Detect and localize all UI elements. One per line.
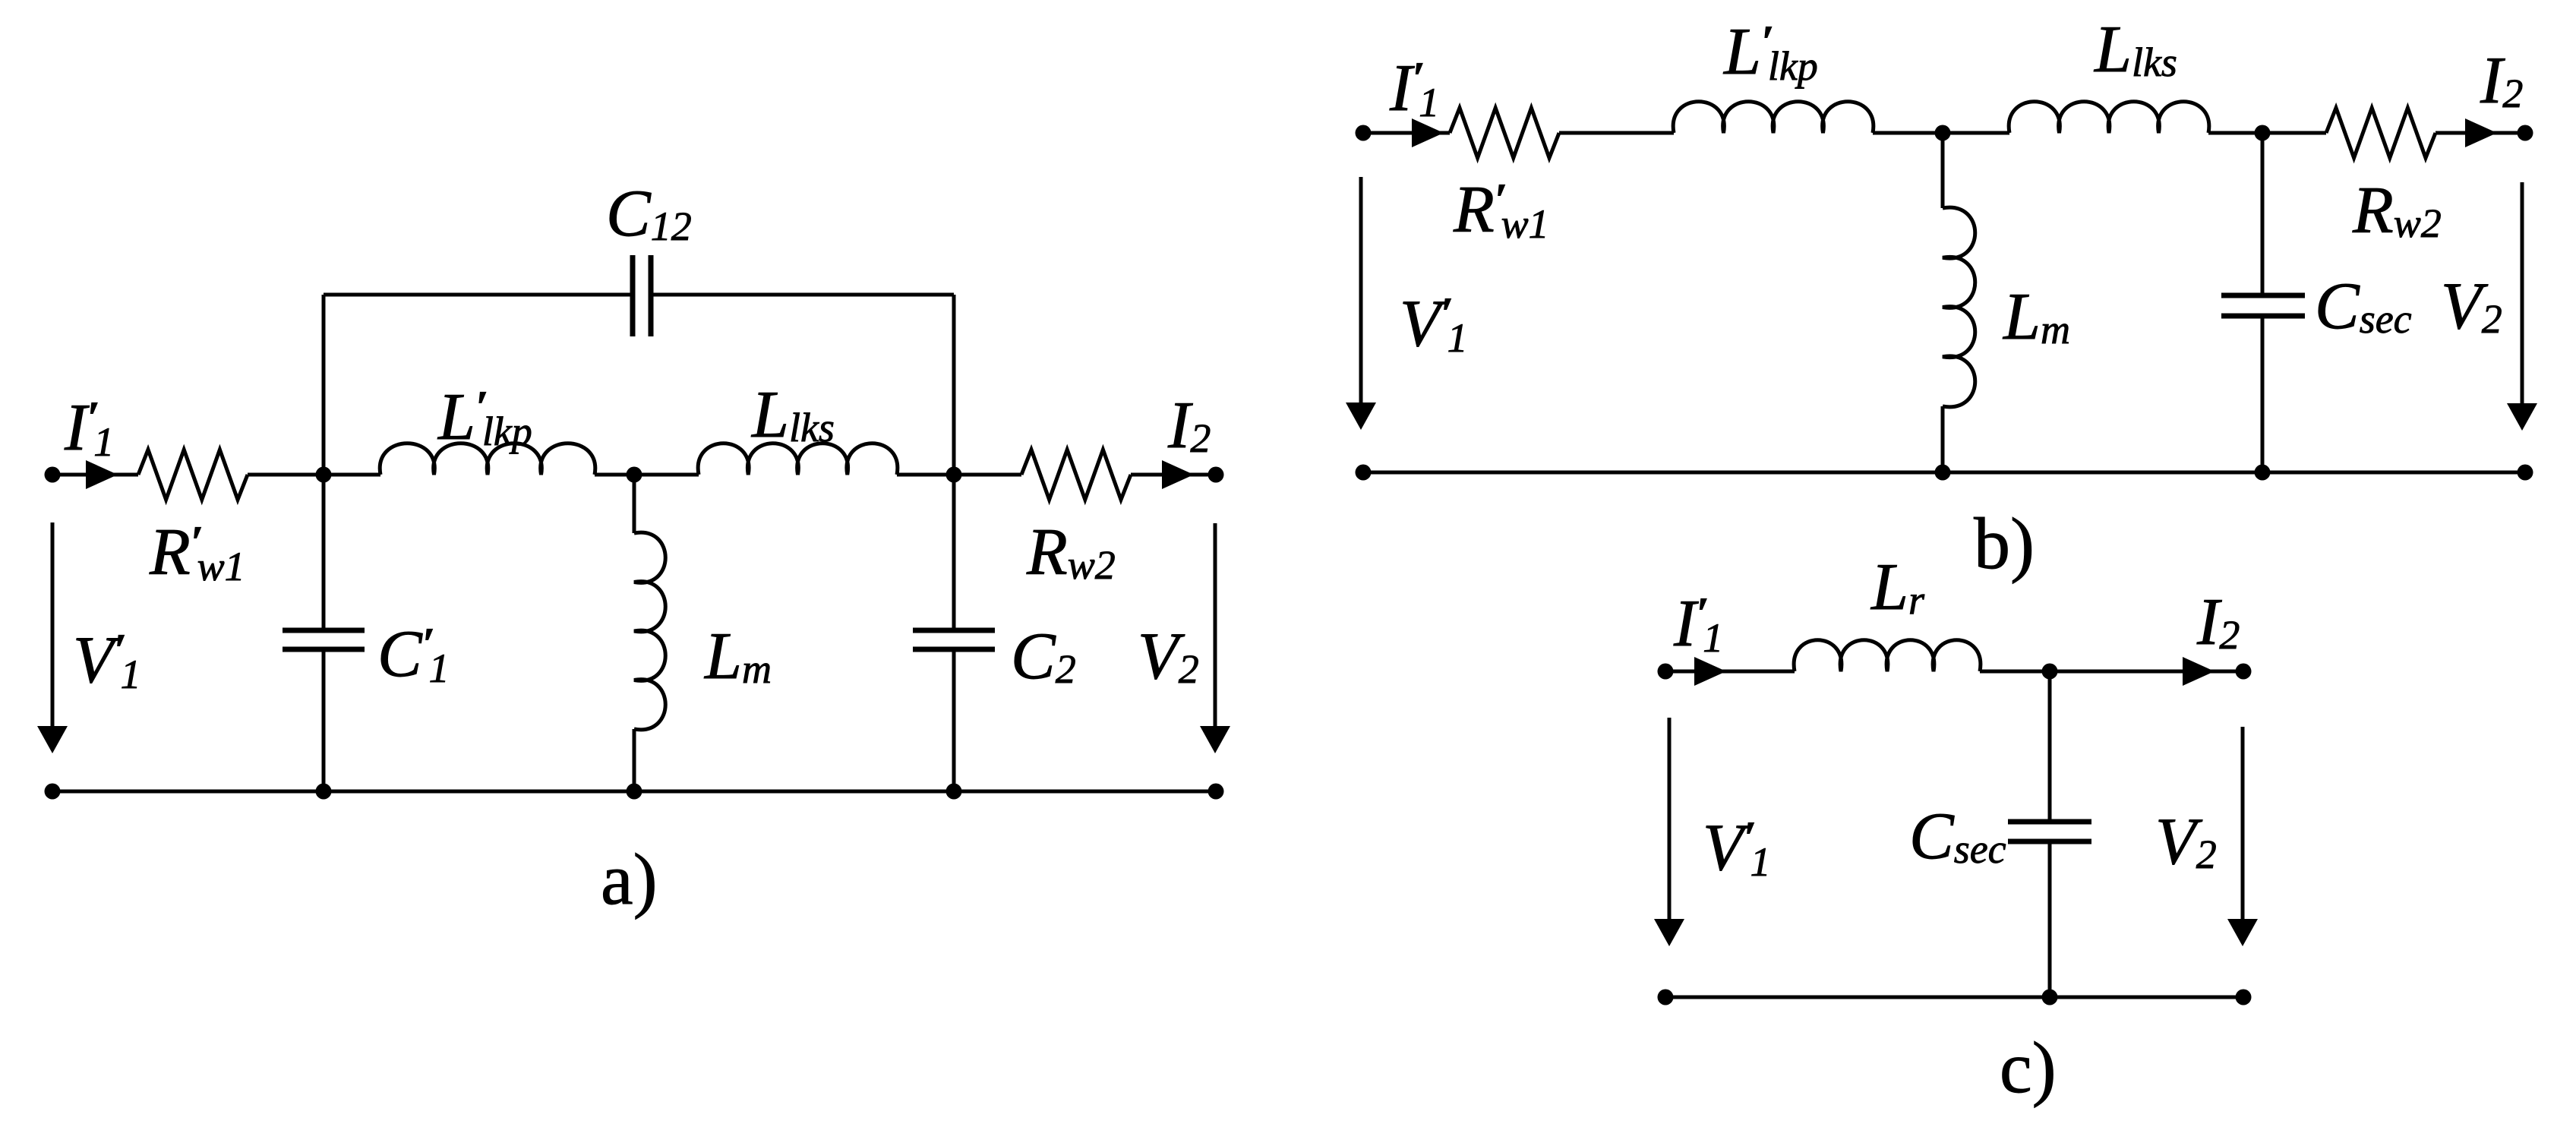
arrowhead I'1 c <box>1694 657 1726 686</box>
node dot c out <box>2236 664 2252 680</box>
wire C12 branch left vertical <box>322 295 326 475</box>
svg-text:L′lkp: L′lkp <box>1722 15 1818 89</box>
node dot a out <box>1208 467 1224 483</box>
node dot b bottom left <box>1356 465 1372 481</box>
wire top rail c right <box>1980 670 2243 674</box>
svg-text:I2: I2 <box>2480 44 2523 118</box>
capacitor C2 <box>913 628 995 633</box>
wire top rail left segment a <box>52 473 138 477</box>
wire top rail b left <box>1363 131 1450 135</box>
arrow V'1 a <box>51 522 55 729</box>
arrowhead I2 a <box>1162 460 1194 489</box>
capacitor C12 <box>630 255 636 336</box>
wire C2 to bottom rail <box>952 649 956 791</box>
inductor Llks b <box>2009 102 2209 133</box>
arrow V2 b <box>2521 182 2524 406</box>
node dot b bottom right <box>2518 465 2533 481</box>
arrowhead I'1 b <box>1412 118 1444 147</box>
svg-text:R′w1: R′w1 <box>149 516 245 589</box>
node dot a bottom C <box>946 784 962 800</box>
wire Csec branch bottom c <box>2048 841 2052 997</box>
wire C12 branch top right <box>651 293 954 297</box>
arrowhead I2 b <box>2465 118 2497 147</box>
svg-text:c): c) <box>2000 1027 2057 1108</box>
node A <box>316 467 332 483</box>
svg-text:b): b) <box>1974 503 2035 584</box>
svg-text:I′1: I′1 <box>1673 587 1723 661</box>
svg-text:Rw2: Rw2 <box>1026 516 1116 589</box>
arrowhead I2 c <box>2183 657 2215 686</box>
inductor Llks <box>698 444 898 475</box>
inductor Lm <box>634 532 665 730</box>
inductor Lm b <box>1943 207 1975 407</box>
node Lm top b <box>1935 125 1951 141</box>
node dot a bottom B <box>627 784 642 800</box>
wire Csec branch top c <box>2048 671 2052 822</box>
arrow V2 c <box>2241 727 2245 920</box>
svg-text:V2: V2 <box>1138 620 1199 693</box>
svg-text:I2: I2 <box>2196 586 2240 659</box>
svg-text:V′1: V′1 <box>1703 811 1771 885</box>
svg-text:V2: V2 <box>2441 270 2502 343</box>
wire bottom rail a <box>52 790 1216 794</box>
inductor Lr <box>1794 640 1981 671</box>
node Csec top c <box>2042 664 2058 680</box>
inductor L'lkp <box>380 444 595 475</box>
arrowhead V'1 c <box>1654 919 1684 946</box>
wire top rail c left <box>1665 670 1795 674</box>
svg-text:R′w1: R′w1 <box>1453 173 1549 247</box>
wire bottom rail c <box>1665 996 2243 999</box>
svg-text:V′1: V′1 <box>1400 287 1468 361</box>
resistor Rw2 <box>1021 450 1131 500</box>
node Csec top b <box>2255 125 2271 141</box>
wire node A region <box>248 473 380 477</box>
node dot b bottom Lm <box>1935 465 1951 481</box>
svg-text:Rw2: Rw2 <box>2352 174 2442 248</box>
svg-text:Csec: Csec <box>2315 270 2412 343</box>
wire Csec branch bottom b <box>2261 316 2265 472</box>
wire to right terminal <box>1131 473 1216 477</box>
wire C'1 to bottom rail <box>322 649 326 791</box>
svg-text:Lm: Lm <box>703 620 772 693</box>
wire node Csec b <box>2208 131 2326 135</box>
svg-text:Lm: Lm <box>2002 280 2070 354</box>
node C <box>946 467 962 483</box>
wire node B region <box>595 473 699 477</box>
arrowhead V2 b <box>2507 403 2537 431</box>
wire node B down to Lm <box>633 475 636 533</box>
node dot c in <box>1658 664 1674 680</box>
svg-text:Llks: Llks <box>2093 13 2177 87</box>
wire Lm to bottom rail <box>633 729 636 791</box>
node dot b out <box>2518 125 2533 141</box>
arrow V'1 c <box>1668 718 1672 920</box>
inductor L'lkp b <box>1673 102 1874 133</box>
arrowhead V'1 b <box>1346 402 1376 430</box>
svg-text:Lr: Lr <box>1870 551 1925 624</box>
wire to right terminal b <box>2436 131 2525 135</box>
node dot a bottom A <box>316 784 332 800</box>
arrowhead V2 c <box>2227 919 2258 946</box>
node B <box>627 467 642 483</box>
capacitor C'1 <box>283 628 365 633</box>
resistor R'w1 <box>138 450 248 500</box>
capacitor Csec b <box>2221 293 2305 298</box>
node dot a in <box>45 467 61 483</box>
svg-text:V′1: V′1 <box>73 623 141 697</box>
arrowhead V'1 a <box>37 726 68 753</box>
node dot c bottom left <box>1658 990 1674 1005</box>
svg-text:I2: I2 <box>1167 389 1211 462</box>
arrow V2 a <box>1214 523 1217 729</box>
node dot c bottom right <box>2236 990 2252 1005</box>
svg-text:C2: C2 <box>1011 620 1076 693</box>
svg-text:C′1: C′1 <box>377 617 450 691</box>
wire to L'lkp b <box>1559 131 1674 135</box>
wire Lm branch top b <box>1941 133 1945 208</box>
node dot a bottom right <box>1208 784 1224 800</box>
wire node C region <box>897 473 1021 477</box>
wire node Lm b <box>1873 131 2009 135</box>
resistor R'w1 b <box>1450 108 1559 158</box>
svg-text:a): a) <box>601 838 658 920</box>
arrowhead I'1 a <box>86 460 118 489</box>
svg-text:C12: C12 <box>606 177 692 251</box>
wire bottom rail b <box>1363 471 2525 475</box>
wire Lm branch bottom b <box>1941 406 1945 472</box>
wire node A down to C'1 <box>322 475 326 630</box>
arrowhead V2 a <box>1200 726 1230 753</box>
resistor Rw2 b <box>2326 108 2436 158</box>
svg-text:V2: V2 <box>2155 805 2217 879</box>
node dot c bottom mid <box>2042 990 2058 1005</box>
node dot a bottom left <box>45 784 61 800</box>
svg-text:Llks: Llks <box>750 378 835 452</box>
wire C12 branch top left <box>324 293 633 297</box>
arrow V'1 b <box>1359 177 1363 406</box>
wire node C down to C2 <box>952 475 956 630</box>
wire Csec branch top b <box>2261 133 2265 295</box>
node dot b bottom Csec <box>2255 465 2271 481</box>
wire C12 branch right vertical <box>952 295 956 475</box>
svg-text:L′lkp: L′lkp <box>437 380 532 454</box>
svg-text:I′1: I′1 <box>64 391 114 465</box>
node dot b in <box>1356 125 1372 141</box>
svg-text:Csec: Csec <box>1909 800 2006 873</box>
capacitor Csec c <box>2008 819 2091 825</box>
svg-text:I′1: I′1 <box>1389 52 1439 125</box>
